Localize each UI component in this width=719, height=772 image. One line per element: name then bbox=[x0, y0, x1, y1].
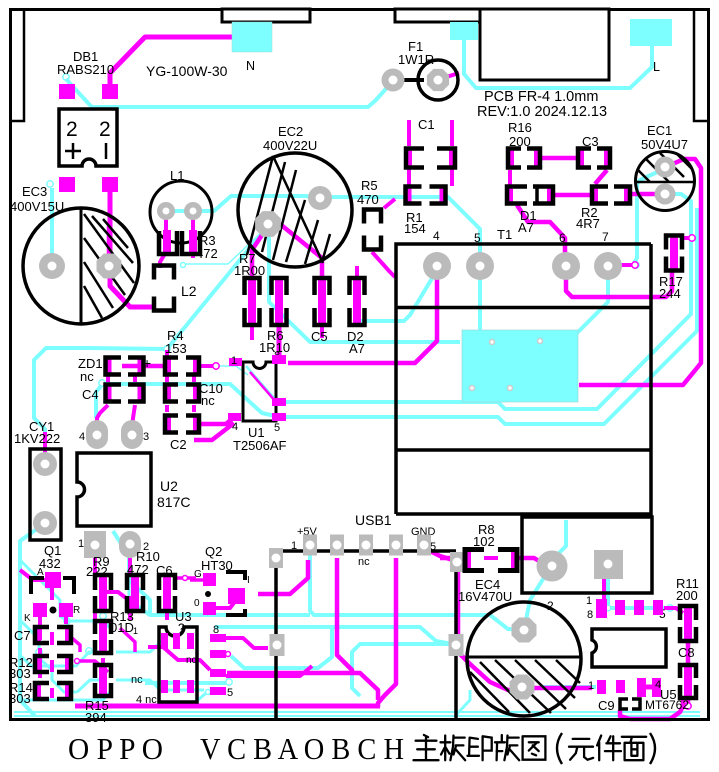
wire Q1 area magenta bbox=[50, 588, 54, 600]
wire cyan crossing U3 bottom bbox=[145, 681, 226, 685]
svg-text:8: 8 bbox=[587, 609, 593, 621]
svg-text:16V470U: 16V470U bbox=[458, 589, 512, 604]
pads K and R bbox=[33, 603, 47, 617]
svg-text:nc: nc bbox=[358, 556, 370, 568]
svg-text:REV:1.0 2024.12.13: REV:1.0 2024.12.13 bbox=[477, 104, 607, 120]
svg-text:50V4U7: 50V4U7 bbox=[641, 137, 688, 152]
wire U3 pins to USB magenta bbox=[226, 638, 268, 648]
svg-text:400V22U: 400V22U bbox=[263, 138, 317, 153]
svg-text:154: 154 bbox=[404, 221, 426, 236]
svg-text:4 nc: 4 nc bbox=[136, 694, 157, 706]
wire EC2 pad down through R6 grid bbox=[269, 226, 460, 342]
big top-right box (heatsink) bbox=[480, 9, 609, 80]
pads 4 and 3 bbox=[86, 420, 108, 449]
wire U1 bottom-left diagonal magenta bbox=[194, 423, 234, 440]
svg-text:303: 303 bbox=[9, 691, 31, 706]
svg-text:nc: nc bbox=[186, 655, 197, 666]
wire C4 row cyan to U1 diagonal bbox=[99, 380, 105, 386]
wire R11 to C8 magenta bbox=[686, 622, 690, 630]
diode D2 footprint col4 bbox=[353, 280, 361, 323]
resistor R2 footprint bbox=[590, 185, 598, 206]
svg-text:R16: R16 bbox=[508, 120, 532, 135]
svg-text:244: 244 bbox=[659, 286, 681, 301]
wire pin5 to R11 magenta bbox=[664, 608, 683, 613]
resistor R13 footprint bbox=[99, 623, 107, 651]
svg-text:1: 1 bbox=[291, 540, 297, 552]
wire R3 right to EC2 area magenta bbox=[191, 252, 195, 258]
wire thin cyan EC2 to L2 via bbox=[185, 228, 266, 264]
svg-text:EC3: EC3 bbox=[22, 184, 47, 199]
wire L1 to EC2 to T1 pin5 cyan net bbox=[160, 196, 480, 264]
caption CJK 板 bbox=[441, 736, 466, 761]
wire bottom-left mesh magenta bbox=[50, 632, 54, 645]
svg-text:1: 1 bbox=[588, 680, 594, 692]
svg-text:2: 2 bbox=[66, 118, 78, 141]
wire USB pads down magenta bbox=[337, 558, 352, 673]
wire grid col2 down to U1 pin1 magenta bbox=[277, 322, 282, 362]
wire R17 top stub magenta bbox=[684, 236, 690, 240]
svg-text:8: 8 bbox=[213, 624, 219, 636]
wire GND pad to R8 magenta bbox=[424, 548, 456, 561]
svg-text:817C: 817C bbox=[157, 494, 190, 510]
pin header row magenta pads bbox=[596, 599, 607, 618]
U5 bottom pads bbox=[597, 680, 606, 694]
op-amp U1 T2506AF bbox=[243, 362, 276, 421]
wire R9/R10 pads magenta bbox=[93, 558, 97, 574]
caption CJK 件 bbox=[597, 736, 621, 761]
wire EC3 left pad cyan bbox=[47, 181, 53, 187]
wire R17 inner magenta bbox=[670, 250, 674, 258]
wire EC3 right pad up from bottom area magenta bbox=[107, 226, 112, 262]
svg-text:EC1: EC1 bbox=[647, 123, 672, 138]
output connector box bbox=[522, 517, 652, 593]
body fills bbox=[23, 109, 695, 716]
AC inlet tab N bbox=[222, 9, 310, 22]
capacitor C10 footprint bbox=[163, 383, 171, 404]
svg-text:3: 3 bbox=[143, 431, 149, 443]
svg-text:5: 5 bbox=[474, 231, 481, 245]
svg-text:A7: A7 bbox=[349, 341, 365, 356]
svg-text:C1: C1 bbox=[418, 117, 435, 132]
wire CY1 bottom pad cyan to left border area bbox=[20, 524, 44, 716]
U3 side pads magenta bbox=[210, 634, 226, 642]
svg-text:5: 5 bbox=[227, 687, 233, 699]
wire C6 column magenta bbox=[165, 580, 169, 598]
svg-text:Q2: Q2 bbox=[205, 544, 222, 559]
wire EC3 right pad magenta to L2 bbox=[110, 268, 152, 307]
wire USB pin1 +5V cyan down bbox=[310, 547, 522, 630]
caption CJK 图 bbox=[523, 736, 546, 759]
wire DB1 bottom right pad to EC3 magenta bbox=[108, 190, 113, 262]
wire T1 pad6 magenta loop to R17 bbox=[566, 268, 672, 297]
wire cyan y627 across bbox=[215, 627, 452, 644]
svg-text:R: R bbox=[73, 605, 80, 616]
svg-text:470: 470 bbox=[357, 192, 379, 207]
border notch left bbox=[11, 10, 24, 122]
wire EC2 pad to CY1 long diagonal bbox=[34, 228, 266, 462]
wire R6 grid verticals magenta bbox=[250, 292, 254, 310]
svg-text:nc: nc bbox=[80, 369, 94, 384]
svg-text:1: 1 bbox=[133, 626, 138, 636]
svg-text:153: 153 bbox=[165, 341, 187, 356]
svg-text:N: N bbox=[246, 59, 255, 73]
svg-text:A7: A7 bbox=[518, 220, 534, 235]
USB1 pads bbox=[269, 548, 283, 568]
svg-text:C5: C5 bbox=[311, 329, 328, 344]
wire T1 pad5 cyan into shield rect bbox=[478, 268, 482, 335]
caption CJK 印 bbox=[468, 736, 492, 760]
svg-text:U2: U2 bbox=[160, 478, 178, 494]
wire C2 to U1 pin4 magenta bbox=[200, 418, 233, 424]
svg-text:1: 1 bbox=[78, 538, 84, 550]
svg-text:2: 2 bbox=[99, 118, 111, 141]
wire EC1 top pad cyan down to T1 pad7 via bbox=[634, 169, 664, 263]
svg-text:C2: C2 bbox=[170, 437, 187, 452]
svg-text:L2: L2 bbox=[181, 283, 197, 299]
svg-text:6: 6 bbox=[559, 231, 566, 245]
wire cyan mesh bottom-left bbox=[20, 560, 112, 630]
capacitor EC5 (EC4 body) bbox=[467, 602, 581, 716]
wire AC-L cyan net from L pad to F1 right bbox=[464, 40, 652, 88]
svg-text:C9: C9 bbox=[598, 698, 615, 713]
wire T1 pad7 cyan under to bottom box bbox=[577, 268, 608, 333]
svg-text:4: 4 bbox=[79, 431, 85, 443]
svg-text:01D: 01D bbox=[110, 620, 134, 635]
wire bottom long magenta rail bbox=[75, 704, 380, 709]
svg-text:102: 102 bbox=[473, 534, 495, 549]
wire R5 diagonals magenta bbox=[384, 199, 395, 208]
transformer T1 body bbox=[396, 244, 651, 514]
wire AC-N cyan net DB1 to F1 bbox=[63, 74, 69, 80]
wire cyan y668 across bottom bbox=[231, 627, 332, 668]
wire bottom box pad to EC5 cyan bbox=[553, 520, 566, 559]
T1 shield pad cyan rect bbox=[462, 330, 578, 402]
wire U1 pin2 cyan east to right border (lower) bbox=[284, 208, 697, 424]
wire U5 pads magenta bbox=[646, 685, 655, 690]
caption CJK 版 bbox=[495, 735, 519, 760]
wire pin row 1-5 cyan bbox=[601, 606, 668, 610]
svg-text:nc: nc bbox=[201, 393, 215, 408]
pad N cyan bbox=[232, 22, 272, 52]
wire R12 via magenta bbox=[75, 659, 80, 664]
resistor R17 footprint bbox=[670, 238, 678, 269]
wire EC4 square pad cyan down to pin1 row bbox=[601, 578, 608, 608]
svg-text:MT6762: MT6762 bbox=[645, 698, 689, 712]
T1 pads bbox=[423, 252, 451, 280]
capacitor C2 footprint bbox=[163, 414, 171, 435]
wire C6 to G pad magenta bbox=[177, 576, 196, 580]
svg-text:1: 1 bbox=[231, 355, 237, 367]
pad L cyan bbox=[630, 19, 672, 46]
wire U1 pin3 cyan east to EC1 (upper) bbox=[284, 194, 691, 409]
svg-text:C4: C4 bbox=[82, 387, 99, 402]
svg-text:4: 4 bbox=[433, 229, 440, 243]
svg-text:394: 394 bbox=[85, 710, 107, 725]
svg-text:K: K bbox=[24, 613, 31, 624]
optocoupler U2 817C bbox=[77, 453, 151, 526]
wire R13 R15 column magenta bbox=[101, 637, 105, 648]
svg-text:EC2: EC2 bbox=[278, 124, 303, 139]
svg-text:USB1: USB1 bbox=[355, 512, 392, 528]
svg-text:303: 303 bbox=[9, 666, 31, 681]
svg-text:1W1R: 1W1R bbox=[398, 52, 434, 67]
wire C9 magenta loop bbox=[620, 706, 683, 719]
svg-text:C7: C7 bbox=[14, 628, 31, 643]
svg-text:PCB FR-4 1.0mm: PCB FR-4 1.0mm bbox=[484, 89, 598, 105]
wire C1 footprint verticals magenta bbox=[407, 148, 411, 205]
svg-text:C8: C8 bbox=[678, 645, 695, 660]
U2 pads bbox=[84, 531, 106, 558]
wire U3 internal magenta bbox=[148, 647, 210, 670]
resistor R6 footprint col2 bbox=[275, 280, 283, 323]
svg-text:YG-100W-30: YG-100W-30 bbox=[146, 63, 228, 79]
svg-text:1: 1 bbox=[586, 595, 592, 607]
caption CJK 主 bbox=[414, 735, 439, 760]
wire cyan C9 to U5 row bbox=[540, 685, 596, 689]
wire ZD1/C4 verticals magenta bbox=[106, 376, 110, 382]
wire R16 to C3 magenta bbox=[540, 156, 578, 161]
wire USB +5V magenta bbox=[258, 560, 308, 594]
svg-text:5: 5 bbox=[274, 422, 280, 434]
border notch right bbox=[694, 10, 708, 122]
pad near F1 cyan bbox=[450, 22, 478, 40]
wire D1 to R2 magenta bbox=[552, 193, 592, 198]
svg-text:R5: R5 bbox=[361, 178, 378, 193]
AC inlet tab L bbox=[395, 9, 480, 22]
resistor R15 footprint bbox=[99, 667, 107, 694]
wire thin cyan R4 via to U1 bbox=[218, 366, 248, 375]
svg-text:1KV222: 1KV222 bbox=[14, 431, 60, 446]
diode D1 footprint bbox=[505, 185, 513, 206]
wire T1 pad4 cyan diagonal to U1 area bbox=[360, 270, 437, 321]
caption CJK 面 bbox=[622, 737, 646, 760]
wire T1 pad4 magenta down to U1 pin8 net bbox=[288, 270, 437, 363]
resistor R7 footprint col1 bbox=[248, 280, 256, 323]
wire Q2 G pad trace magenta bbox=[190, 578, 203, 582]
svg-text:T1: T1 bbox=[497, 227, 512, 242]
svg-text:O P P O: O P P O bbox=[68, 731, 163, 766]
svg-text:RABS210: RABS210 bbox=[57, 62, 114, 77]
wire R8 through magenta bbox=[440, 556, 463, 561]
wire C3 down to R2 magenta bbox=[595, 170, 607, 184]
svg-text:L: L bbox=[653, 60, 660, 74]
caption CJK 元 bbox=[569, 739, 593, 760]
svg-text:4R7: 4R7 bbox=[576, 216, 600, 231]
wire EC2 left pad magenta branches bbox=[252, 226, 268, 276]
svg-text:4: 4 bbox=[232, 421, 238, 433]
svg-text:G: G bbox=[194, 569, 202, 580]
svg-text:V C B A O B C H: V C B A O B C H bbox=[200, 731, 404, 766]
svg-text:+: + bbox=[143, 355, 151, 371]
inductor L2 footprint bbox=[154, 266, 174, 280]
svg-text:T2506AF: T2506AF bbox=[233, 438, 287, 453]
caption paren right bbox=[650, 733, 655, 764]
wire F1 right pad magenta stub bbox=[440, 73, 459, 79]
wire R2 right to EC1 bottom pad magenta bbox=[628, 192, 662, 197]
IC U5 MT6762 bbox=[592, 629, 666, 667]
wire T1 pad7 stub magenta bbox=[611, 263, 632, 267]
wire R11 pin row verticals magenta bbox=[602, 566, 606, 600]
wire U3 pin5 bar trace bbox=[211, 652, 222, 656]
wire ZD1 row magenta bbox=[122, 364, 163, 369]
caption paren left bbox=[557, 733, 562, 764]
wire DB1 right pad to N pad magenta bbox=[110, 37, 232, 84]
svg-text:0: 0 bbox=[194, 598, 200, 609]
wire EC1 top pad magenta to right border down bbox=[579, 159, 701, 385]
wire cyan horizontal y615 west part bbox=[128, 600, 310, 615]
svg-text:I: I bbox=[247, 575, 250, 586]
svg-text:nc: nc bbox=[131, 674, 143, 686]
wire C4 to pads magenta bbox=[97, 405, 108, 432]
svg-text:472: 472 bbox=[196, 246, 218, 261]
wire L1 pads down to R3 magenta bbox=[164, 214, 168, 242]
wire thin cyan bottom border lines bbox=[14, 711, 700, 713]
wire CY1 top pad magenta stub bbox=[43, 432, 47, 462]
svg-text:200: 200 bbox=[676, 588, 698, 603]
wire EC5 bottom pad to U5 magenta bbox=[530, 686, 592, 691]
svg-text:7: 7 bbox=[602, 230, 609, 244]
wire D1 area to T1 pin6 magenta bbox=[517, 205, 565, 262]
capacitor C5 footprint col3 bbox=[318, 280, 326, 323]
resistor R3 footprint bbox=[163, 230, 171, 255]
wire Q2 O pad magenta bbox=[214, 600, 236, 608]
